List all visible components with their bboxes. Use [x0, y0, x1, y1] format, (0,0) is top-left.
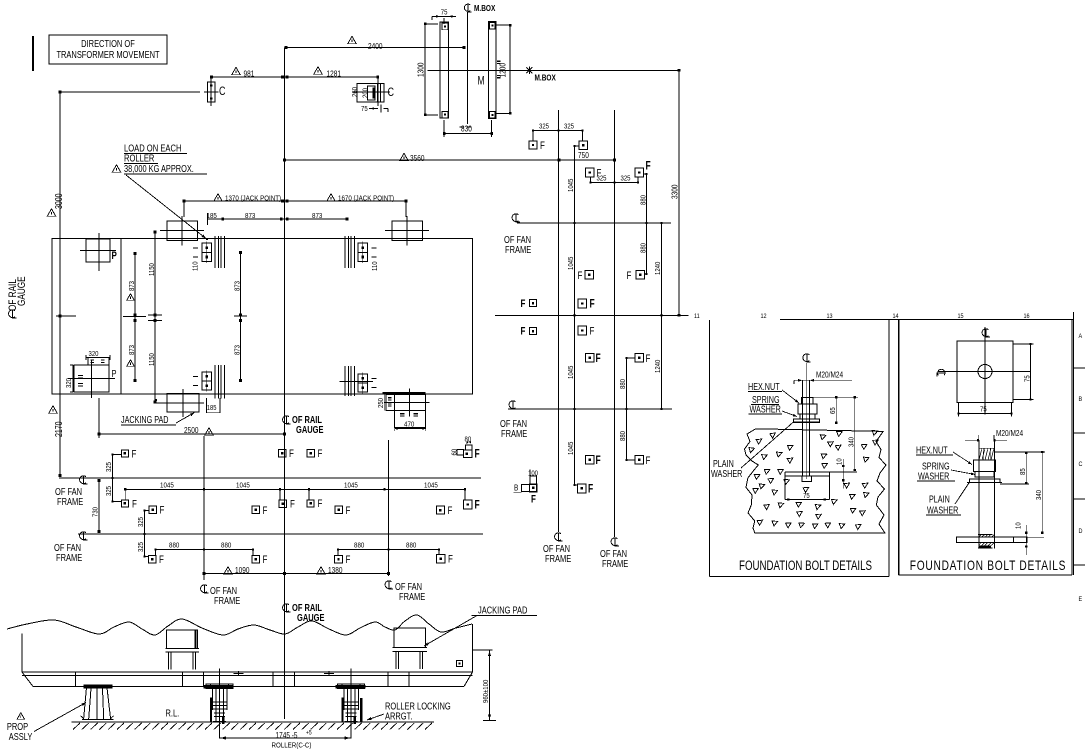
svg-text:880: 880 — [640, 195, 648, 205]
svg-text:75: 75 — [1024, 375, 1032, 382]
fan frame line A y478 — [59, 477, 481, 479]
dim row 1090/1380 (y573.5) — [204, 573, 389, 575]
svg-text:2400: 2400 — [368, 41, 382, 51]
svg-text:75: 75 — [441, 9, 448, 17]
svg-text:JACKING PAD: JACKING PAD — [121, 414, 168, 425]
svg-text:65: 65 — [830, 407, 838, 414]
svg-text:FRAME: FRAME — [602, 558, 628, 569]
svg-text:873: 873 — [234, 281, 242, 291]
svg-text:325: 325 — [539, 123, 549, 131]
tank right edge — [472, 624, 474, 672]
svg-text:1670 (JACK POINT): 1670 (JACK POINT) — [338, 195, 394, 203]
svg-text:873: 873 — [234, 345, 242, 355]
dim 1670 jack point — [285, 200, 407, 202]
base dark segments under jacks — [204, 685, 234, 689]
svg-text:10: 10 — [1015, 522, 1023, 529]
spring washer p2 — [975, 472, 994, 477]
right border — [1073, 312, 1075, 575]
F box 2 — [121, 500, 128, 507]
svg-text:FRAME: FRAME — [505, 244, 531, 255]
anchor plate p1 — [785, 471, 830, 473]
elevation wavy top (oil) — [7, 615, 472, 635]
svg-text:1745 -5: 1745 -5 — [276, 730, 298, 740]
svg-text:1281: 1281 — [327, 69, 341, 79]
roller assembly top-left — [214, 236, 216, 268]
dim 960+-100 — [473, 649, 493, 651]
dim col 880 upper (x646.5) — [646, 174, 648, 274]
F box 31 — [577, 484, 586, 493]
svg-text:FOUNDATION BOLT DETAILS: FOUNDATION BOLT DETAILS — [910, 557, 1066, 573]
F boxes 27/28 — [586, 354, 594, 362]
dim 325/325 (y182.5) — [591, 182, 639, 184]
svg-text:250: 250 — [377, 398, 385, 408]
rail gauge vertical line x60 — [59, 92, 61, 476]
fan bracket (elevation left) — [167, 630, 198, 649]
dim 2170 — [49, 406, 58, 414]
svg-text:3000: 3000 — [53, 193, 64, 209]
svg-text:FRAME: FRAME — [57, 496, 83, 507]
F boxes row y500-507 — [279, 500, 287, 508]
jacking pad top-left — [167, 221, 198, 241]
tank left edge — [21, 634, 23, 673]
svg-text:F: F — [132, 498, 137, 511]
bolt shaft p2 — [978, 440, 980, 549]
fan frame vertical 2 x614.5 — [614, 110, 616, 537]
dim 981 / 1281 — [212, 76, 378, 78]
svg-text:325: 325 — [564, 123, 574, 131]
direction arrow bar — [32, 36, 34, 71]
pad P top-left — [86, 239, 110, 262]
concrete outline p1 — [745, 429, 887, 533]
svg-text:F: F — [448, 505, 453, 518]
concrete triangles p1 — [748, 448, 754, 454]
top view plate p2 — [957, 341, 1013, 403]
svg-text:325: 325 — [621, 175, 631, 183]
svg-text:F: F — [590, 298, 595, 311]
svg-text:F: F — [132, 448, 137, 461]
label of rail gauge (lower) — [283, 604, 291, 613]
svg-text:110: 110 — [192, 261, 200, 271]
F box 17 — [529, 141, 537, 149]
plain washer p2 — [970, 479, 1001, 483]
dim right vertical (M.BOX) — [509, 25, 511, 113]
svg-text:R.L.: R.L. — [166, 707, 180, 718]
svg-text:880: 880 — [620, 379, 628, 389]
svg-text:830: 830 — [461, 124, 472, 134]
svg-text:FRAME: FRAME — [56, 552, 82, 563]
dim 75 vertical p2 — [1030, 344, 1032, 400]
svg-text:3560: 3560 — [410, 153, 424, 163]
svg-text:38,000 KG APPROX.: 38,000 KG APPROX. — [124, 163, 194, 174]
svg-text:F: F — [521, 298, 526, 311]
svg-text:FRAME: FRAME — [501, 428, 527, 439]
M.BOX label (on centerline) — [526, 67, 532, 74]
fan frame line y223 — [517, 222, 671, 224]
svg-text:12: 12 — [761, 313, 768, 321]
direction of transformer movement box — [49, 35, 167, 64]
svg-text:16: 16 — [1024, 313, 1031, 321]
svg-text:F: F — [263, 505, 268, 518]
svg-text:880: 880 — [406, 542, 416, 550]
bolt centerline p1 — [803, 354, 811, 363]
svg-text:C: C — [1079, 461, 1083, 469]
svg-text:F: F — [590, 325, 595, 338]
svg-text:M.BOX: M.BOX — [474, 3, 495, 13]
dim 1370 jack point — [184, 200, 285, 202]
dim 75 horizontal p2 — [959, 413, 1012, 415]
sheet ruler line — [780, 319, 1074, 321]
M.BOX centerline + label (top) — [464, 4, 471, 12]
svg-text:1380: 1380 — [328, 565, 342, 575]
svg-text:F: F — [540, 140, 545, 153]
svg-text:2500: 2500 — [184, 425, 198, 435]
pad bottom-right 470/250 — [383, 392, 426, 394]
svg-text:F: F — [263, 554, 268, 567]
svg-text:F: F — [475, 499, 480, 512]
svg-text:880: 880 — [620, 431, 628, 441]
M.BOX bar left — [440, 22, 448, 118]
dim 65 p1 — [835, 397, 837, 423]
svg-text:340: 340 — [848, 437, 856, 447]
svg-text:873: 873 — [128, 345, 136, 355]
svg-text:1045: 1045 — [424, 482, 438, 490]
svg-text:DIRECTION OF: DIRECTION OF — [81, 38, 135, 49]
dim row 880 left pair — [156, 549, 254, 551]
svg-text:GAUGE: GAUGE — [297, 612, 324, 623]
svg-text:TRANSFORMER MOVEMENT: TRANSFORMER MOVEMENT — [56, 49, 160, 60]
svg-text:1045: 1045 — [236, 482, 250, 490]
svg-text:FRAME: FRAME — [214, 595, 240, 606]
centerline sym fan A — [80, 476, 88, 485]
main rail gauge centerline x284.5 — [284, 48, 286, 720]
dim 10 p2 — [1025, 525, 1027, 555]
svg-text:ROLLER(C-C): ROLLER(C-C) — [272, 742, 312, 750]
svg-text:325: 325 — [138, 517, 146, 527]
svg-text:GAUGE: GAUGE — [16, 276, 29, 306]
svg-text:HEX.NUT: HEX.NUT — [916, 444, 948, 455]
F boxes 29/30 — [586, 456, 594, 464]
tank base band — [22, 671, 473, 673]
= marks + dim 1200 — [497, 60, 501, 62]
svg-text:260: 260 — [351, 87, 359, 97]
roller C (right) detail — [357, 84, 384, 103]
svg-text:WASHER: WASHER — [750, 403, 781, 414]
plan center ticks — [56, 315, 76, 317]
svg-text:730: 730 — [92, 507, 100, 517]
svg-text:13: 13 — [827, 313, 834, 321]
svg-text:F: F — [596, 455, 601, 468]
elevation roller right — [350, 669, 352, 724]
bolt shaft p1 — [801, 380, 803, 473]
svg-text:2170: 2170 — [53, 421, 64, 437]
svg-text:M.BOX: M.BOX — [535, 73, 556, 83]
dim 185 (bottom roller) — [206, 398, 208, 413]
svg-text:185: 185 — [207, 213, 217, 221]
fan frame vertical 1 x558.5 — [558, 110, 560, 532]
plan inner vertical x121 — [120, 239, 122, 395]
roller locking bar — [360, 698, 362, 723]
svg-text:E: E — [1079, 596, 1083, 604]
dim 750 — [559, 159, 615, 161]
dim column 1150/1150 (x155) — [154, 232, 156, 402]
svg-text:F: F — [346, 505, 351, 518]
dim row 880 right pair — [338, 549, 439, 551]
centerline sym fan B — [80, 532, 88, 541]
dim 1745 roller c-c — [219, 723, 221, 739]
dim 730 — [98, 481, 100, 532]
svg-text:WASHER: WASHER — [711, 468, 742, 479]
F boxes 21/22 — [585, 271, 593, 279]
svg-text:873: 873 — [128, 281, 136, 291]
roller C (left) — [208, 82, 216, 102]
svg-text:F: F — [531, 493, 536, 506]
svg-text:325: 325 — [106, 462, 114, 472]
svg-text:C: C — [219, 85, 226, 99]
prop assembly — [84, 685, 113, 689]
svg-text:FRAME: FRAME — [545, 553, 571, 564]
svg-text:15: 15 — [958, 313, 965, 321]
M.BOX horizontal centerline — [427, 69, 678, 71]
svg-text:PLAIN: PLAIN — [929, 493, 950, 504]
F boxes row y555-563 — [148, 555, 156, 563]
panel 1 box — [709, 320, 711, 577]
dim 3300 — [678, 70, 680, 315]
horizontal rail line y315.3 — [495, 314, 688, 316]
svg-text:FRAME: FRAME — [399, 591, 425, 602]
fan frame line y409 — [508, 408, 672, 410]
dim 85 p2 — [1025, 452, 1027, 484]
svg-text:1045: 1045 — [344, 482, 358, 490]
dim 3560 — [285, 159, 560, 161]
dim 325/325 col2 (x144.5) — [144, 511, 146, 557]
plain washer p1 — [794, 419, 820, 423]
svg-text:1200: 1200 — [498, 63, 508, 77]
svg-text:M: M — [478, 75, 485, 88]
svg-text:10: 10 — [836, 458, 844, 465]
svg-text:F: F — [448, 553, 453, 566]
dim 1300 (M.BOX left) — [424, 24, 426, 115]
svg-text:1150: 1150 — [148, 353, 156, 366]
svg-text:185: 185 — [207, 405, 217, 413]
svg-text:F: F — [289, 448, 294, 461]
jacking pad bottom-left — [167, 394, 199, 413]
svg-text:F: F — [160, 504, 165, 517]
dim 830 — [444, 133, 491, 135]
svg-text:F: F — [578, 270, 583, 283]
svg-text:ASSLY: ASSLY — [9, 731, 33, 742]
svg-text:11: 11 — [694, 313, 700, 321]
svg-text:960±100: 960±100 — [482, 679, 490, 703]
svg-text:F: F — [646, 455, 651, 468]
roller assembly bottom-right — [344, 366, 346, 396]
hatch sections bottom p2 — [979, 534, 982, 537]
svg-text:1045: 1045 — [568, 441, 576, 455]
dim col 880 lower (x626.5) — [626, 358, 628, 460]
jacking pad bracket (elevation right) — [394, 628, 426, 648]
dim 10 p1 — [842, 459, 844, 489]
jacking pad top-right — [392, 221, 423, 241]
svg-text:75: 75 — [803, 493, 810, 501]
svg-text:320: 320 — [66, 378, 74, 388]
svg-text:1045: 1045 — [160, 482, 174, 490]
svg-text:B: B — [514, 483, 518, 493]
bolt end p1 — [801, 422, 803, 476]
small square mark — [457, 661, 463, 667]
svg-text:880: 880 — [354, 542, 364, 550]
F box 18 — [579, 141, 588, 150]
svg-text:325: 325 — [106, 486, 114, 496]
svg-text:325: 325 — [138, 542, 146, 552]
svg-text:470: 470 — [404, 421, 414, 429]
hatch top section p2 — [979, 448, 982, 460]
svg-text:981: 981 — [244, 69, 255, 79]
svg-text:F: F — [318, 498, 323, 511]
spring washer p1 — [800, 414, 815, 419]
svg-text:F: F — [346, 554, 351, 567]
svg-text:B: B — [1079, 396, 1083, 404]
dim row 1045 x4 (y489.3) — [125, 488, 465, 490]
cross marks on base — [234, 673, 244, 675]
dim 2400 — [286, 47, 464, 49]
F boxes 19/20 — [585, 168, 594, 177]
M.BOX bar right — [488, 21, 495, 118]
svg-text:75: 75 — [361, 106, 368, 114]
panel 2 box — [898, 320, 900, 575]
svg-text:200: 200 — [362, 88, 370, 98]
svg-text:F: F — [596, 353, 601, 366]
dim 325/325 col1 (x112.5) — [112, 455, 114, 502]
svg-text:1150: 1150 — [148, 263, 156, 276]
svg-text:P: P — [112, 368, 117, 379]
svg-text:F: F — [475, 448, 480, 461]
roller assembly bottom-left — [214, 365, 216, 399]
fan frame vertical x388.5 — [388, 440, 390, 576]
dim 340 p1 — [813, 396, 858, 398]
svg-text:JACKING PAD: JACKING PAD — [478, 604, 528, 615]
wire: horizontal leader y92 — [60, 91, 200, 93]
svg-text:F: F — [627, 270, 632, 283]
svg-text:3300: 3300 — [670, 185, 680, 199]
dim col 1045 x4 (x574.5) — [574, 146, 576, 485]
svg-text:110: 110 — [372, 261, 380, 271]
hex nut p1 — [802, 397, 813, 404]
elevation roller left — [219, 669, 221, 724]
svg-text:14: 14 — [893, 313, 900, 321]
svg-text:F: F — [646, 160, 651, 173]
svg-text:WASHER: WASHER — [918, 470, 949, 481]
dim 185 873 873 — [208, 218, 348, 220]
hex nut p2 — [973, 460, 995, 472]
svg-text:+5: +5 — [306, 730, 312, 737]
svg-text:1045: 1045 — [568, 256, 576, 270]
svg-text:ARRGT.: ARRGT. — [385, 710, 412, 721]
svg-text:873: 873 — [312, 213, 322, 221]
svg-text:880: 880 — [169, 542, 179, 550]
plan view tank outline — [52, 239, 473, 395]
svg-text:F: F — [588, 483, 593, 496]
svg-text:75: 75 — [980, 406, 987, 414]
svg-text:1240: 1240 — [655, 261, 663, 275]
bottom plate p2 — [957, 537, 1027, 542]
dim 325/325 top (y130.5) — [533, 130, 583, 132]
dim column 873/873 right (x240.5) — [240, 253, 242, 381]
svg-text:F: F — [290, 498, 295, 511]
dim col 1240 (x661.5) — [661, 223, 663, 409]
svg-text:P: P — [112, 250, 118, 263]
svg-text:C: C — [388, 86, 395, 100]
prop assly label — [17, 713, 25, 720]
svg-text:750: 750 — [578, 150, 589, 160]
svg-text:325: 325 — [597, 175, 607, 183]
svg-text:880: 880 — [221, 542, 231, 550]
svg-text:1240: 1240 — [655, 359, 663, 373]
svg-text:1090: 1090 — [235, 565, 249, 575]
svg-text:D: D — [1079, 528, 1083, 536]
F box 1 — [121, 450, 128, 457]
svg-text:340: 340 — [1036, 490, 1044, 500]
svg-text:F: F — [521, 325, 526, 338]
svg-text:1045: 1045 — [568, 178, 576, 192]
svg-text:F: F — [318, 448, 323, 461]
svg-text:880: 880 — [640, 243, 648, 253]
dim column 873/873 left (x135) — [134, 254, 136, 381]
svg-text:HEX.NUT: HEX.NUT — [748, 381, 780, 392]
svg-text:FOUNDATION BOLT DETAILS: FOUNDATION BOLT DETAILS — [739, 559, 872, 574]
fan frame vertical x204 — [203, 436, 205, 580]
label of rail gauge (plan bottom) — [283, 416, 291, 425]
svg-text:1370 (JACK POINT): 1370 (JACK POINT) — [225, 195, 281, 203]
svg-text:WASHER: WASHER — [927, 504, 958, 515]
dim 2500 — [99, 433, 285, 435]
svg-text:1045: 1045 — [568, 365, 576, 379]
svg-text:F: F — [159, 554, 164, 567]
dim 340 p2 — [994, 451, 1045, 453]
svg-text:F: F — [646, 353, 651, 366]
ground hatch — [72, 721, 435, 723]
side centerline sym p2 — [937, 369, 945, 376]
leader to roller — [126, 175, 206, 239]
svg-text:1300: 1300 — [416, 63, 426, 77]
svg-text:M20/M24: M20/M24 — [816, 370, 843, 380]
svg-text:85: 85 — [1019, 468, 1027, 475]
roller assembly top-right — [344, 236, 346, 268]
F boxes row y449-457 — [278, 449, 286, 457]
fan frame line B y534 — [78, 533, 483, 535]
svg-text:M20/M24: M20/M24 — [996, 428, 1023, 438]
svg-text:873: 873 — [245, 213, 255, 221]
svg-text:GAUGE: GAUGE — [296, 424, 323, 435]
